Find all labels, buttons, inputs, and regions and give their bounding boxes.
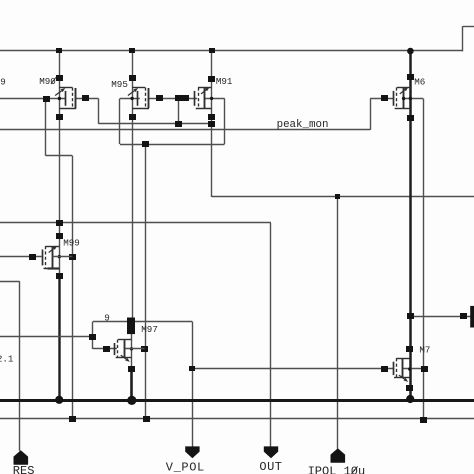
svg-text:RES: RES [13,464,35,474]
transistor M97 [89,318,158,373]
junction square net y=144 [142,141,149,147]
wire M90 bulk lead right [75,98,98,100]
wire node row y=197 to right edge [212,196,474,198]
junction dot rail-M6 [407,48,414,55]
wire bulk bus y=123.7 to M91 [98,123,211,125]
wire M7 bulk lead [403,368,423,370]
wire node 9 drop x=93 [92,322,94,350]
M99 bulk lead [53,256,73,258]
wire M99 source to VSS (bold) [58,276,60,400]
svg-text:9: 9 [0,76,6,87]
wire column M6-M7 (bold x=410.4) [409,51,412,399]
wire V_POL drop x=192.2 [192,322,194,447]
wire VDD rail step up [462,26,464,51]
wire M7 drain tap y=316.4 [410,316,470,318]
junction square rail-M91 [209,48,215,53]
junction square bulk rail x=72 [69,416,76,422]
wire VSS bottom rail (bold) [0,399,474,402]
pin RES [14,450,29,465]
junction square rail-M90 [56,48,62,53]
wire stub y=336.5 from left edge [0,336,93,338]
wire IPOL drop x=337.7 [337,197,339,449]
wire node 9 row y=321.5 [93,321,192,323]
svg-text:M97: M97 [141,324,158,335]
svg-text:V_POL: V_POL [166,460,205,474]
wire bus y=223 [0,222,271,224]
wire bulk column x=145.8 [145,144,147,419]
pin IPOL_10u [331,448,346,463]
wire net drop x=178 [178,98,180,121]
junction square y=123.7 a [175,121,182,127]
junction square bulk rail x=423 [420,417,427,423]
wire riser x=45.8 M90 gate to jog [45,98,47,155]
wire jog y=155.8 [46,155,73,157]
pin V_POL [185,446,199,458]
wire bulk column x=423.2 [423,99,425,420]
pin OUT [264,446,278,458]
junction square rail-M95 [129,48,135,53]
wire M97 gate lead [93,348,117,350]
junction square node y=197 / IPOL [335,194,340,199]
transistor M99 [29,233,80,279]
svg-text:2.1: 2.1 [0,354,14,365]
wire RES drop x=19.7 [19,281,21,451]
wire M99 gate lead [0,256,42,258]
svg-text:OUT: OUT [259,460,282,474]
wire bulk riser x=72.4 [72,156,74,419]
wire column M90-M99 (drain/source chain x=59) [59,51,61,277]
wire M97 drain-column segment [131,334,133,366]
junction square V_POL / M7 gate [189,366,195,371]
junction square bulk rail x=146 [143,416,150,422]
M97 bulk lead [125,348,145,350]
transistor M95 [111,75,163,120]
junction dot VSS-M7 [406,395,414,403]
junction dot VSS-M97 [127,396,136,405]
wire net row y=144 [120,144,225,146]
transistor M90 [39,75,89,120]
slashed zero of M90 label [51,77,56,84]
svg-text:M95: M95 [111,79,128,90]
wire M95 gate lead [120,98,140,100]
transistor M6 [381,74,425,121]
junction square bus-M99 [56,220,63,226]
wire M90 gate lead [0,98,65,100]
wire peak_mon bus y=129.9 [0,129,370,131]
wire M6 gate lead [370,98,394,100]
wire M6 gate riser x=370 [370,99,372,130]
wire bulk rail y=419 [0,418,474,420]
transistor M91 [182,76,233,120]
junction dot VSS-M99 [55,396,63,404]
slashed zero of IPOL_10u [351,466,357,473]
svg-text:M99: M99 [63,238,80,249]
wire M7 gate row y=369 [192,368,394,370]
wire M90 bulk drop [98,98,100,123]
svg-text:M7: M7 [419,344,430,355]
transistor M7 [381,313,467,391]
wire M97 source to VSS (bold) [130,367,133,401]
wire column M95-M97 (x=132) [132,51,134,319]
wire M6 bulk lead [403,98,423,100]
svg-text:9: 9 [104,312,110,323]
wire RES stub y=281.2 [0,281,20,283]
wire riser x=224.6 to M91 bulk [224,98,226,144]
wire VDD top rail [0,50,463,52]
wire M91 bulk lead [205,98,225,100]
wire M95 bulk to M91 gate row [148,98,197,100]
junction square y=123.7 b [208,121,215,127]
svg-text:peak_mon: peak_mon [277,119,329,131]
svg-text:M91: M91 [216,76,233,87]
wire column M91 (x=211.6) [211,51,213,124]
wire M91 column down to node [211,124,213,197]
wire M95 gate riser x=120 [119,99,121,145]
wire OUT drop x=271 [270,223,272,447]
pin bar right edge [470,306,474,328]
svg-text:IPOL_10u: IPOL_10u [308,464,366,474]
svg-text:M6: M6 [414,77,425,88]
junction square net x=178 [175,95,182,101]
